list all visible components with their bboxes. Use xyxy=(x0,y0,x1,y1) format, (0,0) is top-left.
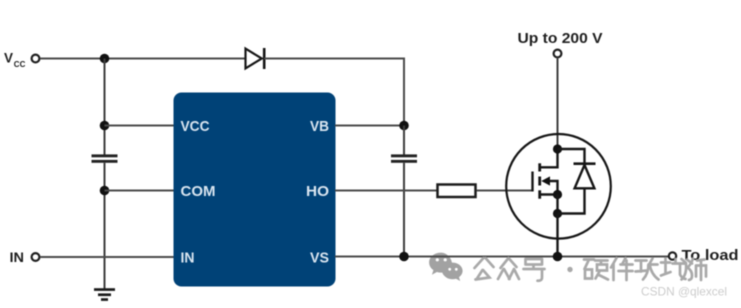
transistor Q1 source stub xyxy=(541,193,558,195)
wire drain supply xyxy=(557,58,559,150)
wire VCC pin xyxy=(105,125,175,127)
diode D2 body diode branch xyxy=(558,149,585,164)
wire COM pin xyxy=(105,190,175,192)
svg-text:CC: CC xyxy=(14,60,26,69)
wire Q1 source to VS rail xyxy=(556,214,558,257)
transistor Q1 gate bar xyxy=(531,172,533,192)
terminal Up to 200 V xyxy=(554,50,562,58)
transistor Q1 body arrow xyxy=(541,176,550,185)
junction Q1 drain node xyxy=(553,144,562,153)
wire diode cathode to right rail corner xyxy=(264,59,404,126)
junction Q1 source node xyxy=(553,190,562,199)
watermark text 公众号·硬件攻城狮 (drawn strokes) xyxy=(475,258,707,281)
junction Q1 diode return node xyxy=(553,209,562,218)
wire VS rail to To-load terminal xyxy=(335,256,669,258)
transistor Q1 channel bar segments xyxy=(538,163,541,198)
watermark wechat icon xyxy=(429,253,463,281)
resistor R1 (gate resistor) xyxy=(438,185,476,198)
svg-text:VCC: VCC xyxy=(181,118,210,135)
svg-text:VB: VB xyxy=(310,118,329,135)
wire resistor to gate xyxy=(477,190,533,192)
wire Q1 source to diode return junction xyxy=(556,195,558,214)
junction Vcc/left rail xyxy=(100,54,110,64)
svg-text:VS: VS xyxy=(310,250,329,267)
svg-text:V: V xyxy=(4,51,13,66)
svg-text:Up to 200 V: Up to 200 V xyxy=(518,31,603,47)
wire VB pin xyxy=(335,125,404,127)
transistor Q1 MOSFET body circle xyxy=(506,134,611,239)
wire left rail bottom (capacitor C1 to ground) xyxy=(104,163,106,289)
wire left rail top (junction to capacitor C1) xyxy=(104,59,106,156)
wire IN terminal to IC xyxy=(40,256,174,258)
terminal To load xyxy=(669,252,676,259)
svg-text:IN: IN xyxy=(181,250,195,267)
label Vcc xyxy=(4,51,26,69)
diode D1 (bootstrap diode) xyxy=(246,48,265,69)
wire HO pin to resistor xyxy=(335,190,437,192)
wire capacitor C2 to VS rail xyxy=(403,163,405,257)
terminal Vcc xyxy=(32,55,40,63)
svg-text:COM: COM xyxy=(181,183,216,200)
svg-text:IN: IN xyxy=(10,249,25,265)
op-amp U1 gate driver IC body xyxy=(174,93,336,287)
svg-text:HO: HO xyxy=(306,183,329,200)
junction COM pin / left rail xyxy=(100,186,110,196)
ground xyxy=(94,288,115,301)
wire bootstrap rail to capacitor C2 xyxy=(403,126,405,156)
junction source / VS rail xyxy=(553,252,563,262)
junction VB / bootstrap rail xyxy=(399,121,409,131)
junction VCC pin / left rail xyxy=(100,121,110,131)
wire Vcc terminal to diode anode xyxy=(40,58,246,60)
svg-text:CSDN @qlexcel: CSDN @qlexcel xyxy=(641,285,727,299)
junction VS / bootstrap return xyxy=(399,252,409,262)
capacitor C1 (VCC decoupling) xyxy=(92,154,118,162)
terminal IN xyxy=(32,253,40,261)
transistor Q1 drain stub xyxy=(541,149,558,167)
capacitor C2 (bootstrap) xyxy=(391,154,417,162)
